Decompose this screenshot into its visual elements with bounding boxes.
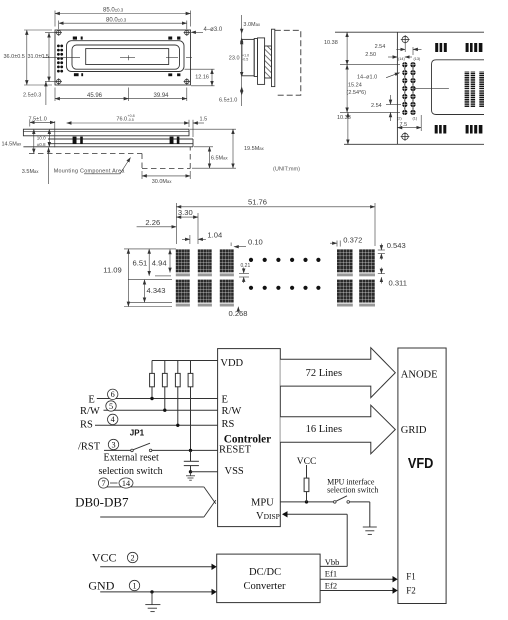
svg-text:/RST: /RST	[78, 441, 101, 452]
svg-text:0.372: 0.372	[343, 236, 362, 245]
svg-text:0.543: 0.543	[387, 241, 406, 250]
dim 6.5Max	[194, 147, 213, 168]
dim 10.0	[48, 129, 50, 147]
svg-text:GRID: GRID	[401, 425, 427, 436]
svg-text:3.5Mах: 3.5Mах	[22, 169, 40, 175]
svg-text:4: 4	[111, 415, 115, 424]
VCC pullup wire	[306, 465, 308, 478]
node MPU junction	[305, 500, 308, 503]
svg-text:DC/DC: DC/DC	[249, 567, 281, 578]
dim 0.10	[231, 243, 246, 247]
wire R/W	[104, 409, 218, 411]
pcb outline	[55, 30, 191, 85]
resistor R1	[150, 373, 155, 386]
svg-text:85.0±0.3: 85.0±0.3	[103, 8, 124, 14]
svg-text:(UNIT:mm): (UNIT:mm)	[273, 167, 300, 173]
bezel inner	[72, 45, 180, 69]
dim 7.5 top	[30, 120, 55, 147]
dim 10.38 bottom	[347, 112, 349, 144]
node R/W junction	[163, 409, 166, 412]
pin number labels	[397, 57, 421, 121]
svg-text:R/W: R/W	[222, 406, 242, 417]
svg-text:6.51: 6.51	[133, 259, 148, 268]
dim 2.54 bottom	[386, 95, 401, 121]
wire R1 to E line	[151, 387, 153, 399]
row2 left	[176, 280, 190, 303]
svg-text:(1): (1)	[413, 117, 418, 121]
pcb	[48, 138, 193, 140]
svg-text:80.0±0.3: 80.0±0.3	[106, 17, 127, 23]
dim 6.5	[241, 87, 243, 96]
glass slab	[23, 129, 189, 136]
wire switch to RESET pin	[152, 449, 218, 451]
bus arrow 72 lines	[280, 348, 395, 398]
wire VCC to DC/DC	[100, 566, 212, 568]
pin holes 2x7	[402, 62, 416, 116]
svg-text:2: 2	[131, 553, 135, 562]
svg-text:VCC: VCC	[297, 457, 317, 467]
svg-text:7.5±1.0: 7.5±1.0	[29, 117, 47, 123]
svg-text:7.5: 7.5	[400, 122, 408, 128]
dim 0.268	[237, 307, 239, 313]
dim 6.51	[149, 249, 171, 276]
svg-text:2.54: 2.54	[371, 103, 382, 109]
component area dashed	[275, 30, 301, 95]
dimension 85.0	[55, 11, 191, 27]
dim 19.5Max	[190, 129, 236, 168]
smd pads top	[435, 43, 483, 134]
svg-text:1.04: 1.04	[207, 230, 222, 239]
svg-text:4.343: 4.343	[147, 286, 166, 295]
svg-text:ANODE: ANODE	[401, 369, 438, 380]
node VSS junction	[189, 470, 192, 473]
svg-text:6.5±1.0: 6.5±1.0	[219, 98, 237, 104]
svg-text:15.24: 15.24	[348, 82, 362, 88]
front sheet	[254, 39, 257, 77]
svg-text:72 Lines: 72 Lines	[306, 368, 342, 379]
svg-text:±0.8: ±0.8	[37, 142, 46, 147]
pcb	[272, 29, 275, 86]
dim 3.0Max	[241, 27, 243, 43]
dim 30.0Max	[142, 171, 190, 179]
svg-text:1.5: 1.5	[200, 117, 208, 123]
wire R4 to RESET line	[190, 387, 192, 451]
dimension 31.0	[45, 33, 56, 82]
centerline	[241, 15, 243, 106]
svg-text:5: 5	[109, 402, 113, 411]
svg-text:4.94: 4.94	[152, 259, 167, 268]
svg-text:10.38: 10.38	[324, 40, 338, 46]
svg-text:16 Lines: 16 Lines	[306, 424, 342, 435]
resistor R3	[175, 373, 180, 386]
svg-text:R/W: R/W	[80, 406, 100, 417]
svg-text:51.76: 51.76	[248, 198, 267, 207]
resistor R2	[162, 373, 167, 386]
ellipsis dots	[249, 258, 321, 290]
controller U1 box	[218, 349, 281, 527]
svg-text:Controler: Controler	[224, 433, 271, 445]
resistor R5	[304, 478, 309, 492]
svg-text:VSS: VSS	[225, 466, 244, 477]
ground symbol at GND	[145, 592, 160, 612]
DB0-DB7 bus arrow (open)	[100, 487, 216, 517]
label 14-dia1.0	[386, 73, 400, 78]
wire Ef2	[320, 590, 393, 592]
smd pads top/bottom	[73, 37, 181, 77]
ground below VSS	[186, 472, 195, 480]
dim 0.543	[378, 244, 385, 260]
bezel front	[242, 39, 254, 75]
svg-text:DB0-DB7: DB0-DB7	[75, 494, 129, 509]
svg-text:(13): (13)	[414, 57, 421, 61]
svg-text:11.09: 11.09	[103, 266, 121, 275]
right group	[337, 249, 353, 272]
MPU interface selection switch	[334, 501, 337, 504]
svg-text:10.38: 10.38	[337, 115, 351, 121]
character cells row1 left	[176, 249, 375, 306]
bus arrow 16 lines	[280, 405, 395, 454]
dimension 4-dia3.0	[191, 31, 203, 33]
wire VDISP with arrow	[283, 513, 347, 515]
dim 2.26	[137, 226, 177, 228]
wire switch to ground	[350, 501, 370, 503]
node E junction	[150, 397, 153, 400]
dim 3.5Max	[48, 148, 50, 185]
svg-text:External reset: External reset	[104, 452, 159, 463]
svg-text:RS: RS	[222, 419, 235, 430]
pins	[73, 137, 180, 144]
stripe blocks	[465, 71, 484, 107]
dim 1.5	[193, 120, 204, 137]
dim 23.0	[241, 39, 243, 76]
svg-text:2.5±0.3: 2.5±0.3	[23, 93, 41, 99]
svg-text:GND: GND	[88, 579, 114, 593]
svg-text:VDISP: VDISP	[256, 511, 280, 522]
node GND junction	[150, 590, 153, 593]
svg-text:VCC: VCC	[92, 551, 117, 565]
svg-text:(2.54*6): (2.54*6)	[347, 90, 367, 96]
dimension 80.0	[59, 21, 187, 30]
wire Vbb	[320, 565, 347, 567]
dimension 36.0	[24, 30, 52, 85]
svg-text:VDD: VDD	[220, 358, 243, 369]
svg-text:76.0: 76.0	[116, 117, 127, 123]
wire GND to DC/DC	[100, 591, 212, 593]
svg-text:E: E	[222, 394, 228, 405]
dim 0.21	[239, 268, 249, 284]
svg-text:-0.5: -0.5	[128, 118, 134, 122]
dim 0.372	[330, 241, 340, 247]
dim 11.09	[124, 249, 176, 307]
dim 1.04	[182, 235, 206, 244]
svg-text:F2: F2	[406, 585, 416, 595]
glass edge hatched	[265, 46, 272, 78]
dimension 45.96 / 39.94	[55, 88, 187, 102]
svg-text:E: E	[88, 394, 94, 405]
capacitor C1	[190, 450, 192, 461]
svg-text:Ef2: Ef2	[325, 580, 337, 590]
svg-text:0.21: 0.21	[241, 263, 251, 269]
svg-text:2.26: 2.26	[145, 218, 160, 227]
svg-text:14–ø1.0: 14–ø1.0	[357, 75, 377, 81]
svg-text:10.0: 10.0	[37, 136, 46, 141]
svg-text:selection switch: selection switch	[327, 486, 378, 495]
svg-text:23.0: 23.0	[229, 56, 240, 62]
VFD box	[398, 348, 446, 604]
svg-text:-0.5: -0.5	[242, 57, 248, 61]
svg-text:2.50: 2.50	[365, 52, 376, 58]
svg-text:Ef1: Ef1	[325, 568, 337, 578]
dimension 2.5	[45, 82, 47, 106]
svg-text:2.54: 2.54	[375, 44, 386, 50]
resistor R4	[188, 373, 193, 386]
reset selection switch JP1	[131, 449, 134, 452]
dim 4.94	[169, 249, 171, 272]
svg-text:14: 14	[122, 479, 130, 488]
svg-text:45.96: 45.96	[87, 93, 103, 99]
dim 7.5	[397, 115, 421, 131]
bezel outer	[67, 41, 185, 72]
display outline from back	[432, 60, 485, 115]
wire R2 to R/W line	[164, 387, 166, 410]
corner holes	[56, 29, 191, 84]
svg-text:12.16: 12.16	[195, 75, 209, 81]
svg-text:F1: F1	[406, 572, 416, 582]
svg-text:selection switch: selection switch	[99, 466, 163, 477]
dim 15.24	[340, 65, 400, 113]
dim 10.38 top	[340, 32, 400, 64]
node RS junction	[176, 424, 179, 427]
wire /RST to switch	[104, 449, 131, 451]
dim 51.76	[176, 203, 375, 246]
centerline	[43, 55, 192, 60]
svg-text:3.0Mах: 3.0Mах	[243, 22, 261, 28]
svg-text:6.5Mах: 6.5Mах	[211, 156, 229, 162]
svg-text:RS: RS	[80, 420, 93, 431]
wire E	[97, 398, 218, 400]
node RESET/R4 junction	[189, 449, 192, 452]
svg-text:MPU: MPU	[251, 498, 274, 509]
svg-text:14.5Mах: 14.5Mах	[2, 142, 23, 148]
svg-text:39.94: 39.94	[154, 93, 170, 99]
wire RS	[95, 424, 218, 426]
VDD rail wire	[152, 360, 218, 362]
svg-text:0.268: 0.268	[229, 309, 248, 318]
svg-text:1: 1	[132, 581, 136, 590]
circled pin numbers	[98, 389, 139, 591]
dim 14.5Max	[33, 129, 35, 153]
wire MPU	[280, 501, 333, 503]
leader to display	[413, 87, 449, 89]
svg-text:19.5Mах: 19.5Mах	[244, 146, 265, 152]
svg-text:0.10: 0.10	[248, 237, 263, 246]
svg-text:30.0Mах: 30.0Mах	[152, 179, 173, 185]
svg-text:0.311: 0.311	[389, 278, 407, 287]
dim 0.311	[378, 268, 385, 284]
svg-text:6: 6	[111, 390, 115, 399]
wire Ef1	[320, 578, 393, 580]
dim 4.343	[128, 280, 172, 303]
svg-text:JP1: JP1	[130, 429, 145, 438]
svg-text:Mounting Component Area: Mounting Component Area	[54, 168, 125, 174]
svg-text:7: 7	[101, 479, 105, 488]
dim 2.50	[388, 56, 412, 58]
connector dots 2x7	[57, 45, 63, 73]
svg-text:3.30: 3.30	[178, 208, 193, 217]
display aperture	[86, 49, 169, 65]
wire VSS	[191, 471, 218, 473]
svg-text:3: 3	[111, 440, 115, 449]
dim 2.54 top	[396, 44, 421, 55]
glass	[258, 38, 265, 85]
svg-text:RESET: RESET	[219, 445, 252, 456]
DC/DC converter box	[217, 554, 320, 603]
dimension 12.16	[185, 69, 215, 86]
svg-text:Vbb: Vbb	[325, 557, 340, 567]
ground below MPU switch	[363, 527, 377, 534]
svg-text:36.0±0.5: 36.0±0.5	[4, 54, 25, 60]
mounting holes	[401, 35, 410, 141]
pcb edges	[396, 32, 398, 144]
dim 76.0	[67, 120, 189, 127]
dim 3.30	[176, 213, 198, 244]
svg-text:(14): (14)	[398, 57, 405, 61]
wire R3 to RS line	[177, 387, 179, 426]
svg-text:4–ø3.0: 4–ø3.0	[204, 27, 223, 33]
svg-text:VFD: VFD	[408, 456, 434, 472]
svg-text:(2): (2)	[397, 117, 402, 121]
svg-text:Converter: Converter	[244, 581, 286, 592]
svg-text:31.0±0.5: 31.0±0.5	[28, 54, 49, 60]
mounting area dashed	[29, 147, 190, 169]
